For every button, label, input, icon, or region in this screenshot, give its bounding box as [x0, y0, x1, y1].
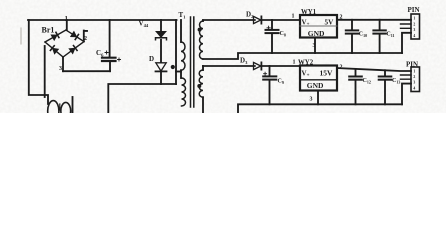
secondary winding lower [202, 66, 204, 70]
capacitor C12 [355, 69, 357, 76]
bridge rectifier Br1 [43, 27, 86, 59]
diode V44 (transient suppressor) [160, 20, 162, 32]
secondary winding upper [202, 19, 204, 22]
junction dot primary [171, 65, 175, 69]
svg-text:3: 3 [413, 28, 415, 32]
svg-text:Br1: Br1 [42, 26, 55, 35]
svg-text:C8: C8 [280, 31, 286, 37]
svg-text:15V: 15V [320, 69, 334, 78]
svg-text:C6: C6 [96, 49, 104, 58]
svg-text:C10: C10 [359, 32, 367, 38]
svg-text:3: 3 [310, 97, 313, 103]
svg-text:5V: 5V [325, 19, 335, 27]
wire ground riser to PIN [402, 33, 411, 53]
wire rail to primary bottom [175, 20, 177, 84]
wire ground rail (15V section) [238, 104, 402, 113]
svg-text:C12: C12 [363, 78, 371, 84]
svg-text:1: 1 [413, 17, 415, 21]
svg-text:V+: V+ [302, 19, 310, 28]
capacitor C9 [269, 66, 271, 76]
svg-text:D3: D3 [240, 57, 248, 66]
svg-text:D: D [149, 55, 154, 63]
svg-text:1: 1 [413, 70, 415, 74]
svg-text:4: 4 [413, 86, 415, 90]
svg-text:T1: T1 [179, 11, 187, 20]
wire node3 to C6 [63, 70, 110, 72]
node 2 [84, 31, 87, 42]
core [191, 17, 194, 107]
capacitor C6 [109, 20, 111, 57]
svg-text:1: 1 [293, 60, 296, 66]
wire ground riser to PIN (15V) [402, 84, 411, 105]
svg-text:GND: GND [307, 81, 324, 90]
svg-text:PIN: PIN [408, 6, 420, 14]
capacitor C10 [351, 20, 353, 30]
node 1 [66, 20, 68, 30]
wire secondary return jog [203, 53, 402, 59]
faint scan mark [20, 28, 22, 44]
wire AC input stub [72, 97, 74, 113]
svg-text:2: 2 [413, 75, 415, 79]
svg-text:3: 3 [413, 81, 415, 85]
capacitor C11 [379, 20, 381, 30]
svg-text:1: 1 [292, 14, 295, 20]
svg-text:1: 1 [65, 15, 69, 23]
svg-text:GND: GND [308, 29, 325, 38]
wire top rail [28, 19, 177, 21]
node 3 [62, 57, 64, 71]
wire between diodes [160, 40, 162, 63]
svg-text:C13: C13 [392, 78, 400, 84]
svg-text:2: 2 [413, 22, 415, 26]
svg-text:C9: C9 [278, 79, 284, 85]
svg-text:V+: V+ [302, 70, 310, 79]
svg-text:4: 4 [413, 34, 415, 38]
capacitor C13 [384, 70, 386, 76]
svg-text:3: 3 [59, 66, 62, 72]
capacitor C8 [271, 20, 273, 29]
inductor line-filter (cut off at bottom edge) [48, 101, 71, 113]
svg-text:C11: C11 [386, 32, 394, 38]
svg-text:2: 2 [84, 36, 87, 42]
wire left AC descender [29, 20, 48, 104]
wire bottom return of primary [108, 84, 176, 113]
primary winding upper [180, 20, 182, 42]
primary winding lower [182, 78, 186, 106]
wire 15V secondary to regulator [203, 65, 255, 67]
wire bridge left lead [44, 46, 46, 97]
wire 5V secondary to regulator [203, 19, 255, 21]
